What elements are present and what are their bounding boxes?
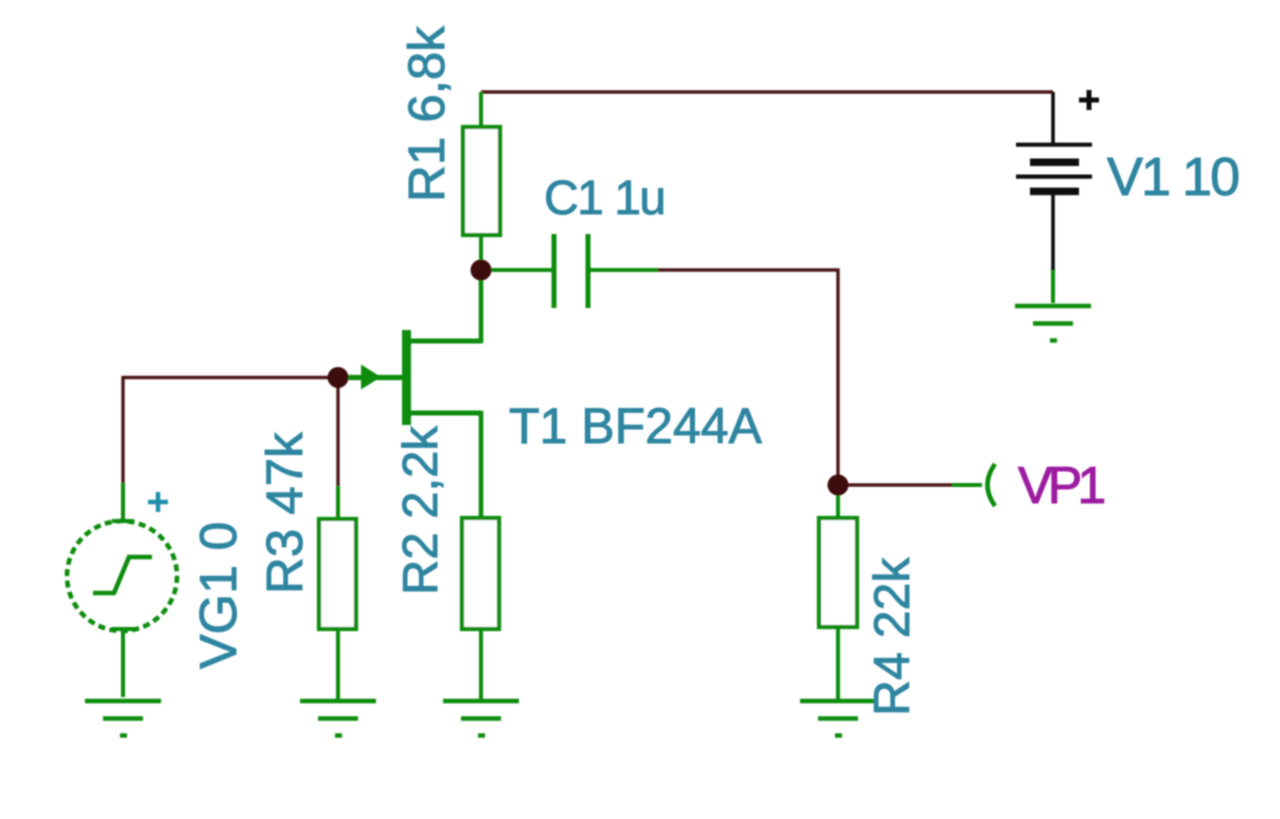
node A junction dot <box>471 260 492 281</box>
svg-text:R4 22k: R4 22k <box>864 557 920 716</box>
wire VG1 top lead <box>121 483 125 522</box>
wire R1 bottom to node A <box>479 235 483 270</box>
svg-text:C1 1u: C1 1u <box>544 172 665 225</box>
ground VG1 <box>85 701 161 736</box>
resistor R1 <box>463 127 500 235</box>
ground R4 <box>800 701 876 736</box>
svg-text:V1 10: V1 10 <box>1107 147 1238 207</box>
plus sign V1 <box>1079 90 1099 110</box>
svg-text:VP1: VP1 <box>1018 457 1104 515</box>
wire R4 bottom to ground <box>836 627 840 700</box>
ground V1 <box>1015 306 1091 341</box>
transistor T1 <box>361 330 481 425</box>
svg-text:R2 2,2k: R2 2,2k <box>394 426 448 595</box>
wire node B to probe <box>838 483 952 486</box>
wire R3 bottom to ground <box>336 629 340 700</box>
plus sign VG1 <box>148 492 168 512</box>
ground R3 <box>300 701 376 736</box>
wire node A to C1 <box>481 268 554 272</box>
wire junction to R3 top <box>336 486 340 519</box>
svg-text:VG1 0: VG1 0 <box>190 522 248 669</box>
wire node B to R4 <box>836 485 840 518</box>
wire VG1 bottom to ground <box>121 629 125 697</box>
wire node A to drain <box>407 270 481 341</box>
wire source to R2 <box>407 413 481 518</box>
wire R2 bottom to ground <box>479 629 483 700</box>
wire V1 bottom to ground <box>1051 268 1055 303</box>
wire junction down to R3 <box>336 378 339 489</box>
probe VP1 <box>988 464 996 506</box>
ground R2 <box>443 701 519 736</box>
wire top: R1 top to V1 <box>481 90 1053 93</box>
svg-text:R3 47k: R3 47k <box>256 432 313 594</box>
wire VG1 to gate junction <box>123 378 338 486</box>
wire C1 right to node B <box>656 270 838 485</box>
svg-text:T1 BF244A: T1 BF244A <box>509 398 763 454</box>
source VG1 <box>67 521 177 631</box>
battery V1 <box>1016 92 1092 270</box>
wire R1 top lead <box>479 92 483 127</box>
svg-text:R1 6,8k: R1 6,8k <box>398 26 455 202</box>
wire probe lead <box>952 483 982 487</box>
resistor R4 <box>819 518 857 627</box>
resistor R3 <box>319 519 356 629</box>
resistor R2 <box>462 518 499 629</box>
node gate junction dot <box>328 367 349 388</box>
wire C1 right lead <box>588 268 658 272</box>
wire gate lead <box>340 375 404 380</box>
node B junction dot <box>828 475 849 496</box>
capacitor C1 <box>554 234 588 308</box>
